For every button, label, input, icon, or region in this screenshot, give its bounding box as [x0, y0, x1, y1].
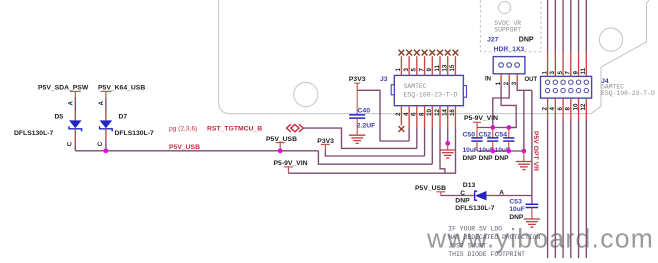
net tap P5-9V_VIN	[284, 166, 293, 168]
svg-text:DNP: DNP	[455, 198, 470, 205]
J27 pin 2 wire to P5-9V_VIN rail	[508, 74, 510, 83]
svg-text:P5V_K64_USB: P5V_K64_USB	[98, 84, 145, 91]
svg-text:DNP: DNP	[509, 214, 524, 221]
svg-text:11: 11	[580, 67, 587, 74]
svg-text:OUT: OUT	[525, 77, 538, 83]
svg-text:5: 5	[557, 71, 564, 75]
svg-text:12: 12	[580, 103, 587, 110]
svg-text:11: 11	[434, 64, 441, 71]
svg-text:C: C	[67, 141, 74, 146]
svg-text:10uF: 10uF	[509, 206, 524, 213]
pin C53 to ground	[531, 208, 533, 220]
junction bottom rail C50	[490, 149, 495, 154]
svg-text:DNP: DNP	[495, 155, 510, 162]
svg-text:C52: C52	[479, 131, 492, 138]
pin A of D7 (red stub)	[105, 111, 107, 120]
capacitor C50 10uF DNP	[476, 128, 478, 138]
net tap P3V3 upper	[354, 82, 360, 84]
capacitor C52 10uF DNP	[492, 128, 494, 138]
pin A of D13	[487, 195, 497, 197]
wire P5V_K64_USB to D7 anode	[105, 98, 107, 112]
svg-text:C50: C50	[463, 131, 476, 138]
svg-text:RST_TGTMCU_B: RST_TGTMCU_B	[207, 125, 262, 132]
svg-text:DFLS130L-7: DFLS130L-7	[115, 130, 155, 137]
svg-text:10: 10	[572, 103, 579, 110]
wire D7 cathode to P5V_USB rail	[105, 141, 107, 151]
svg-text:DNP: DNP	[479, 155, 494, 162]
J27 pin 3 wire to P5V_OPT_VR	[516, 74, 518, 83]
svg-text:DFLS130L-7: DFLS130L-7	[14, 130, 54, 137]
wire P3V3 to J3 pin 8	[325, 151, 424, 157]
J3 top pins 1,3,5,7,9,11,13,15 with no-connect X marks	[400, 56, 402, 75]
junction top rail / C54	[506, 125, 511, 130]
wire D13 anode to P5V_OPT_VR	[497, 195, 532, 197]
J3 pin 8 wire	[424, 106, 426, 128]
svg-text:C54: C54	[495, 131, 508, 138]
junction bottom rail ground branch	[522, 149, 527, 154]
svg-text:J27: J27	[487, 36, 499, 43]
J3 pin 14 wire to ground	[447, 106, 449, 128]
wire P5-9V_VIN to J3 pin 16	[288, 128, 455, 173]
wire P5V_OPT_VR vertical	[531, 90, 533, 204]
svg-text:ESQ-108-23-T-D: ESQ-108-23-T-D	[404, 92, 458, 99]
svg-text:15: 15	[449, 64, 456, 71]
svg-text:10uF: 10uF	[463, 147, 478, 154]
svg-text:SUPPORT: SUPPORT	[494, 26, 521, 33]
svg-text:8: 8	[565, 107, 572, 111]
board mounting hole (left)	[294, 82, 318, 106]
diode D5 DFLS130L-7	[69, 120, 82, 128]
svg-text:P5V_SDA_PSW: P5V_SDA_PSW	[38, 84, 89, 91]
connector J3 SAMTEC ESQ-108-23-T-D	[394, 75, 463, 105]
svg-text:3: 3	[403, 68, 410, 72]
capacitor C40 2.2UF	[349, 114, 365, 116]
wire P3V3 branch to J3 pin 4	[357, 90, 409, 141]
svg-text:SAMTEC: SAMTEC	[404, 83, 427, 90]
net tap P5V_USB	[276, 142, 285, 144]
board outline dashed bay around J27	[480, 0, 541, 52]
pin A of D5 (red stub)	[74, 111, 76, 120]
svg-text:A: A	[98, 101, 105, 106]
wire D5 cathode to P5V_USB rail	[74, 141, 76, 151]
svg-text:D5: D5	[55, 114, 64, 121]
svg-text:HDR_1X3: HDR_1X3	[494, 46, 525, 53]
svg-text:4: 4	[549, 107, 556, 111]
svg-text:3: 3	[549, 71, 556, 75]
svg-text:2.2UF: 2.2UF	[357, 122, 376, 129]
junction P5V_USB tap	[278, 148, 283, 153]
junction D7 / P5V_USB rail	[104, 148, 109, 153]
wire P5V_USB rail (horizontal)	[75, 150, 318, 152]
svg-text:P5V_USB: P5V_USB	[169, 144, 200, 151]
J27 pin 1 wire to P5-9V_VIN rail	[500, 74, 502, 83]
connector J4 SAMTEC ESQ-106-23-T-D	[541, 76, 592, 98]
junction J3 pin 14 / ground	[445, 141, 450, 146]
J4 bottom pin wires to sheet edge	[547, 98, 549, 120]
svg-text:C: C	[97, 141, 104, 146]
svg-text:13: 13	[442, 64, 449, 71]
svg-text:A: A	[68, 101, 75, 106]
wire P5V_SDA_PSW to D5 anode	[74, 98, 76, 112]
board mounting hole (right)	[599, 28, 622, 51]
ground (cap bank)	[523, 151, 525, 162]
J4 top pin wires from sheet edge	[547, 0, 549, 52]
svg-text:J3: J3	[380, 76, 388, 83]
svg-text:6: 6	[557, 107, 564, 111]
diode D7 DFLS130L-7	[100, 120, 113, 128]
svg-text:pg (2,3,6): pg (2,3,6)	[169, 125, 197, 132]
pin C of D5 (red stub)	[74, 129, 76, 141]
pin C of D7 (red stub)	[105, 129, 107, 141]
capacitor C53 10uF DNP	[526, 203, 539, 205]
svg-text:P5V OPT VR: P5V OPT VR	[532, 131, 539, 171]
net tap P5V_SDA_PSW	[70, 90, 81, 92]
ground (J3 pin 14)	[440, 149, 456, 151]
svg-text:9: 9	[426, 68, 433, 72]
svg-text:7: 7	[565, 71, 572, 75]
svg-text:HAS DEDICATED PROTECTION: HAS DEDICATED PROTECTION	[448, 234, 540, 241]
svg-text:P3V3: P3V3	[349, 76, 366, 83]
J3 pin 6 wire	[416, 106, 418, 128]
wire P5-9V_VIN top rail	[477, 127, 516, 129]
pin C of D13	[466, 195, 475, 197]
svg-text:IF YOUR 5V LDO: IF YOUR 5V LDO	[448, 226, 502, 233]
svg-text:C40: C40	[358, 107, 371, 114]
svg-text:DNP: DNP	[519, 36, 534, 43]
wire ground branch from pin3 run	[523, 90, 525, 151]
wire cap bank bottom rail	[477, 150, 524, 152]
net tap P5-9V_VIN cap bank	[473, 121, 481, 123]
svg-text:9: 9	[572, 71, 579, 75]
off-page connector chevrons	[287, 124, 291, 132]
svg-text:5: 5	[411, 68, 418, 72]
wire P3V3 to C40	[356, 90, 358, 115]
wire RST_TGTMCU_B to J3 pin 6	[303, 128, 417, 148]
svg-text:D13: D13	[463, 182, 476, 189]
J3 pin 16 stub	[454, 106, 456, 128]
ground (C40)	[349, 134, 365, 136]
pin C40 to ground	[356, 118, 358, 135]
J3 pin 10 wire	[431, 106, 433, 128]
ground (C53)	[524, 218, 540, 220]
svg-text:1: 1	[395, 68, 402, 72]
board outline (PCB silhouette, grey)	[219, 0, 649, 114]
svg-text:2: 2	[541, 107, 548, 111]
board mounting hole (top, J27 bay)	[499, 1, 511, 13]
net tap P5V_K64_USB	[100, 90, 111, 92]
svg-text:C: C	[460, 190, 465, 197]
J3 pin 2 no-connect	[400, 106, 402, 126]
svg-text:IN: IN	[485, 77, 491, 83]
svg-text:JUST SHUNT: JUST SHUNT	[448, 242, 487, 249]
J3 pin 12 wire	[439, 106, 441, 128]
junction bottom rail C52	[506, 149, 511, 154]
svg-text:P5V_USB: P5V_USB	[415, 185, 446, 192]
svg-text:1: 1	[541, 71, 548, 75]
svg-text:DFLS130L-7: DFLS130L-7	[455, 205, 495, 212]
diode D13 DFLS130L-7 (DNP)	[475, 191, 478, 200]
capacitor C54 10uF DNP	[508, 128, 510, 138]
svg-text:P5-9V_VIN: P5-9V_VIN	[274, 160, 308, 167]
svg-text:D7: D7	[119, 114, 128, 121]
net tap P3V3 lower	[321, 143, 330, 145]
svg-text:DNP: DNP	[463, 155, 478, 162]
junction top rail / C52	[490, 125, 495, 130]
svg-text:THIS DIODE FOOTPRINT: THIS DIODE FOOTPRINT	[448, 251, 525, 258]
wire P5V_USB to D13 cathode	[441, 195, 466, 197]
wire P5V_USB to J3 pin 10	[318, 151, 432, 164]
J3 pin 4 wire	[408, 106, 410, 128]
svg-text:ESQ-106-23-T-D: ESQ-106-23-T-D	[601, 90, 655, 97]
svg-text:7: 7	[418, 68, 425, 72]
net tap P5V_USB bottom	[436, 191, 445, 193]
svg-text:C53: C53	[509, 199, 522, 206]
